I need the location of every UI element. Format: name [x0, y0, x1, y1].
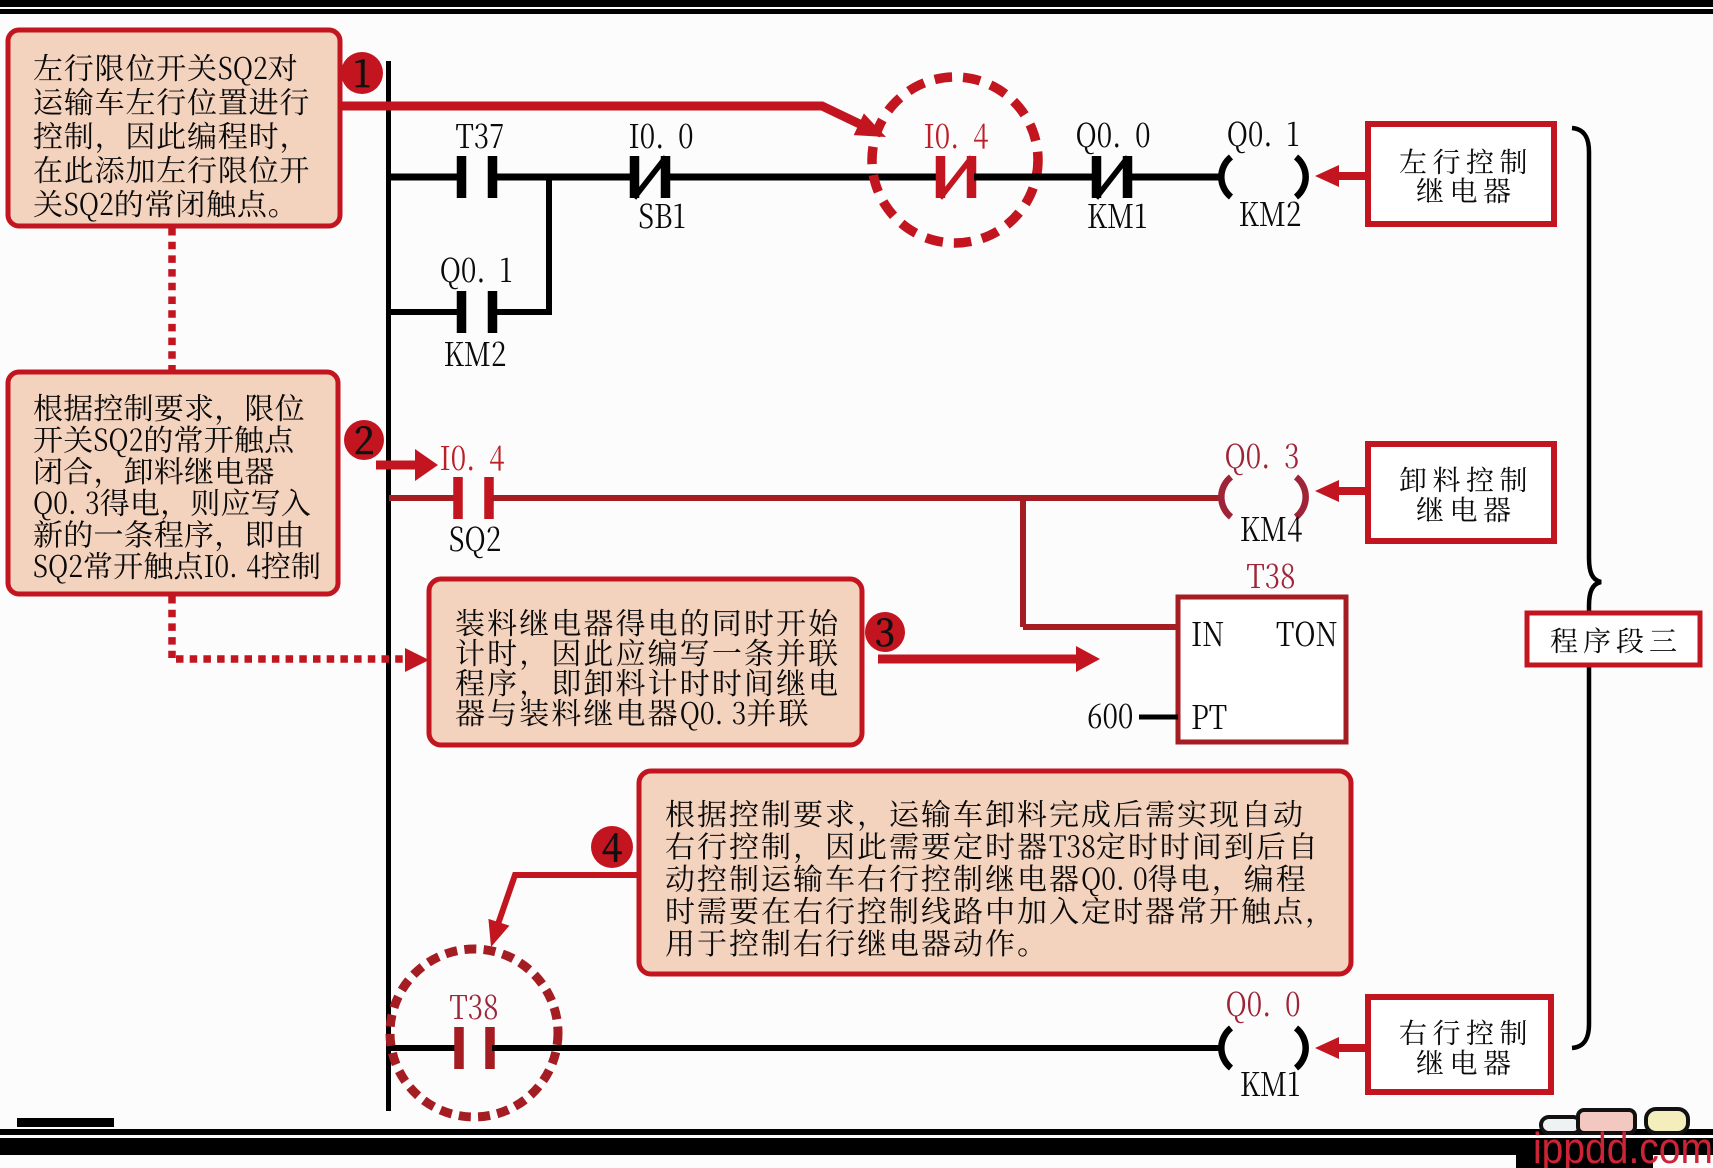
contact I0.0 (NC) [630, 156, 640, 198]
red arrow from circle4 to T38 dashed circle [497, 875, 638, 927]
label T38 timer [1247, 563, 1294, 588]
bottom border bars [0, 1129, 1713, 1135]
red arrow from unload relay box to coil Q0.3 [1335, 487, 1369, 495]
label Q0.1 coil [1228, 121, 1298, 153]
watermark icons [1541, 1109, 1688, 1133]
step circle 3 [865, 612, 905, 652]
label Q0.1 branch [441, 257, 511, 289]
wire 600 to PT [1139, 715, 1178, 720]
red arrow from left-run relay box to coil Q0.1 [1335, 172, 1369, 180]
wire I0.4 to Q0.0 contact [974, 174, 1094, 181]
wire Q0.0 contact to coil Q0.1 [1130, 174, 1221, 181]
timer block T38 TON [1178, 597, 1346, 742]
timer pin label PT [1192, 705, 1226, 729]
dashed highlight circle around T38 contact [390, 949, 558, 1117]
wire rung4 rail to T38 contact [389, 1045, 457, 1051]
dashed highlight circle around I0.4 [872, 77, 1038, 243]
label T37 [456, 123, 503, 148]
wire branch to junction [492, 309, 552, 315]
contact Q0.1 branch [457, 291, 467, 333]
coil Q0.1 [1221, 157, 1231, 197]
red callout line from box1 to I0.4 circle [342, 106, 866, 127]
wire T37 to I0.0 [494, 174, 633, 181]
contact Q0.0 / KM1 (NC) [1092, 156, 1102, 198]
callout box 2 (left middle) [8, 372, 338, 594]
label Q0.3 coil [1226, 443, 1298, 475]
callout box 4 (bottom) [639, 771, 1351, 974]
red arrow from right-run relay box to coil Q0.0 [1335, 1044, 1369, 1052]
label I0.0 [630, 123, 692, 148]
label box unload relay [1368, 444, 1554, 541]
timer pin label IN [1192, 622, 1223, 646]
label KM2 coil [1240, 201, 1300, 226]
curly brace program segment [1572, 128, 1601, 1048]
dotted connector box1 to box2 [168, 228, 176, 370]
coil Q0.0 [1221, 1028, 1231, 1068]
wire T38 contact to coil Q0.0 [492, 1045, 1221, 1051]
label SB1 [640, 203, 685, 228]
wire branch rail to Q0.1 contact [389, 309, 459, 315]
label box left-run relay [1368, 124, 1554, 224]
timer type label TON [1277, 621, 1337, 646]
label Q0.0 contact [1077, 122, 1149, 154]
label KM1 contact [1088, 204, 1146, 228]
wire junction rung1 branch [546, 177, 552, 312]
svg-text:ippdd.com: ippdd.com [1533, 1124, 1713, 1168]
contact T37 [457, 156, 467, 198]
wire junction down to timer IN (dark red) [1020, 498, 1026, 627]
wire rung1 rail to T37 [389, 174, 459, 181]
label SQ2 [450, 526, 500, 558]
red arrow from circle3 to timer IN [878, 655, 1078, 664]
label KM2 branch [445, 341, 505, 366]
wire rung2 rail to SQ2 (dark red) [389, 495, 455, 501]
callout box 1 (top left) [8, 30, 340, 226]
left power rail [386, 61, 391, 1111]
label T38 contact [450, 994, 497, 1019]
wire SQ2 to coil Q0.3 (dark red) [492, 495, 1221, 501]
label I0.4 red [925, 123, 988, 148]
timer preset value 600 [1089, 703, 1132, 728]
callout box 3 (middle) [429, 579, 862, 745]
dotted connector arrowhead [405, 648, 429, 672]
step circle 4 [591, 826, 633, 868]
dotted connector box2 to box3 vertical [168, 596, 176, 658]
label KM1 coil [1241, 1072, 1299, 1096]
step circle 1 [341, 52, 383, 94]
contact I0.4 / SQ2 (red) [453, 477, 463, 519]
label I0.4 rung2 [441, 445, 504, 470]
wire I0.0 to I0.4 [667, 174, 938, 181]
label KM4 [1241, 517, 1302, 542]
top border bars [0, 0, 1713, 7]
label box program segment three [1527, 613, 1700, 665]
coil Q0.3 (maroon) [1221, 477, 1231, 517]
label Q0.0 coil [1227, 991, 1299, 1023]
label box right-run relay [1368, 997, 1551, 1092]
contact I0.4 (NC, red) [936, 156, 946, 198]
red arrow from circle2 to I0.4 rung2 [376, 461, 416, 470]
step circle 2 [344, 420, 384, 460]
dotted connector box2 to box3 horizontal [176, 655, 404, 663]
contact T38 (red) [454, 1027, 464, 1069]
